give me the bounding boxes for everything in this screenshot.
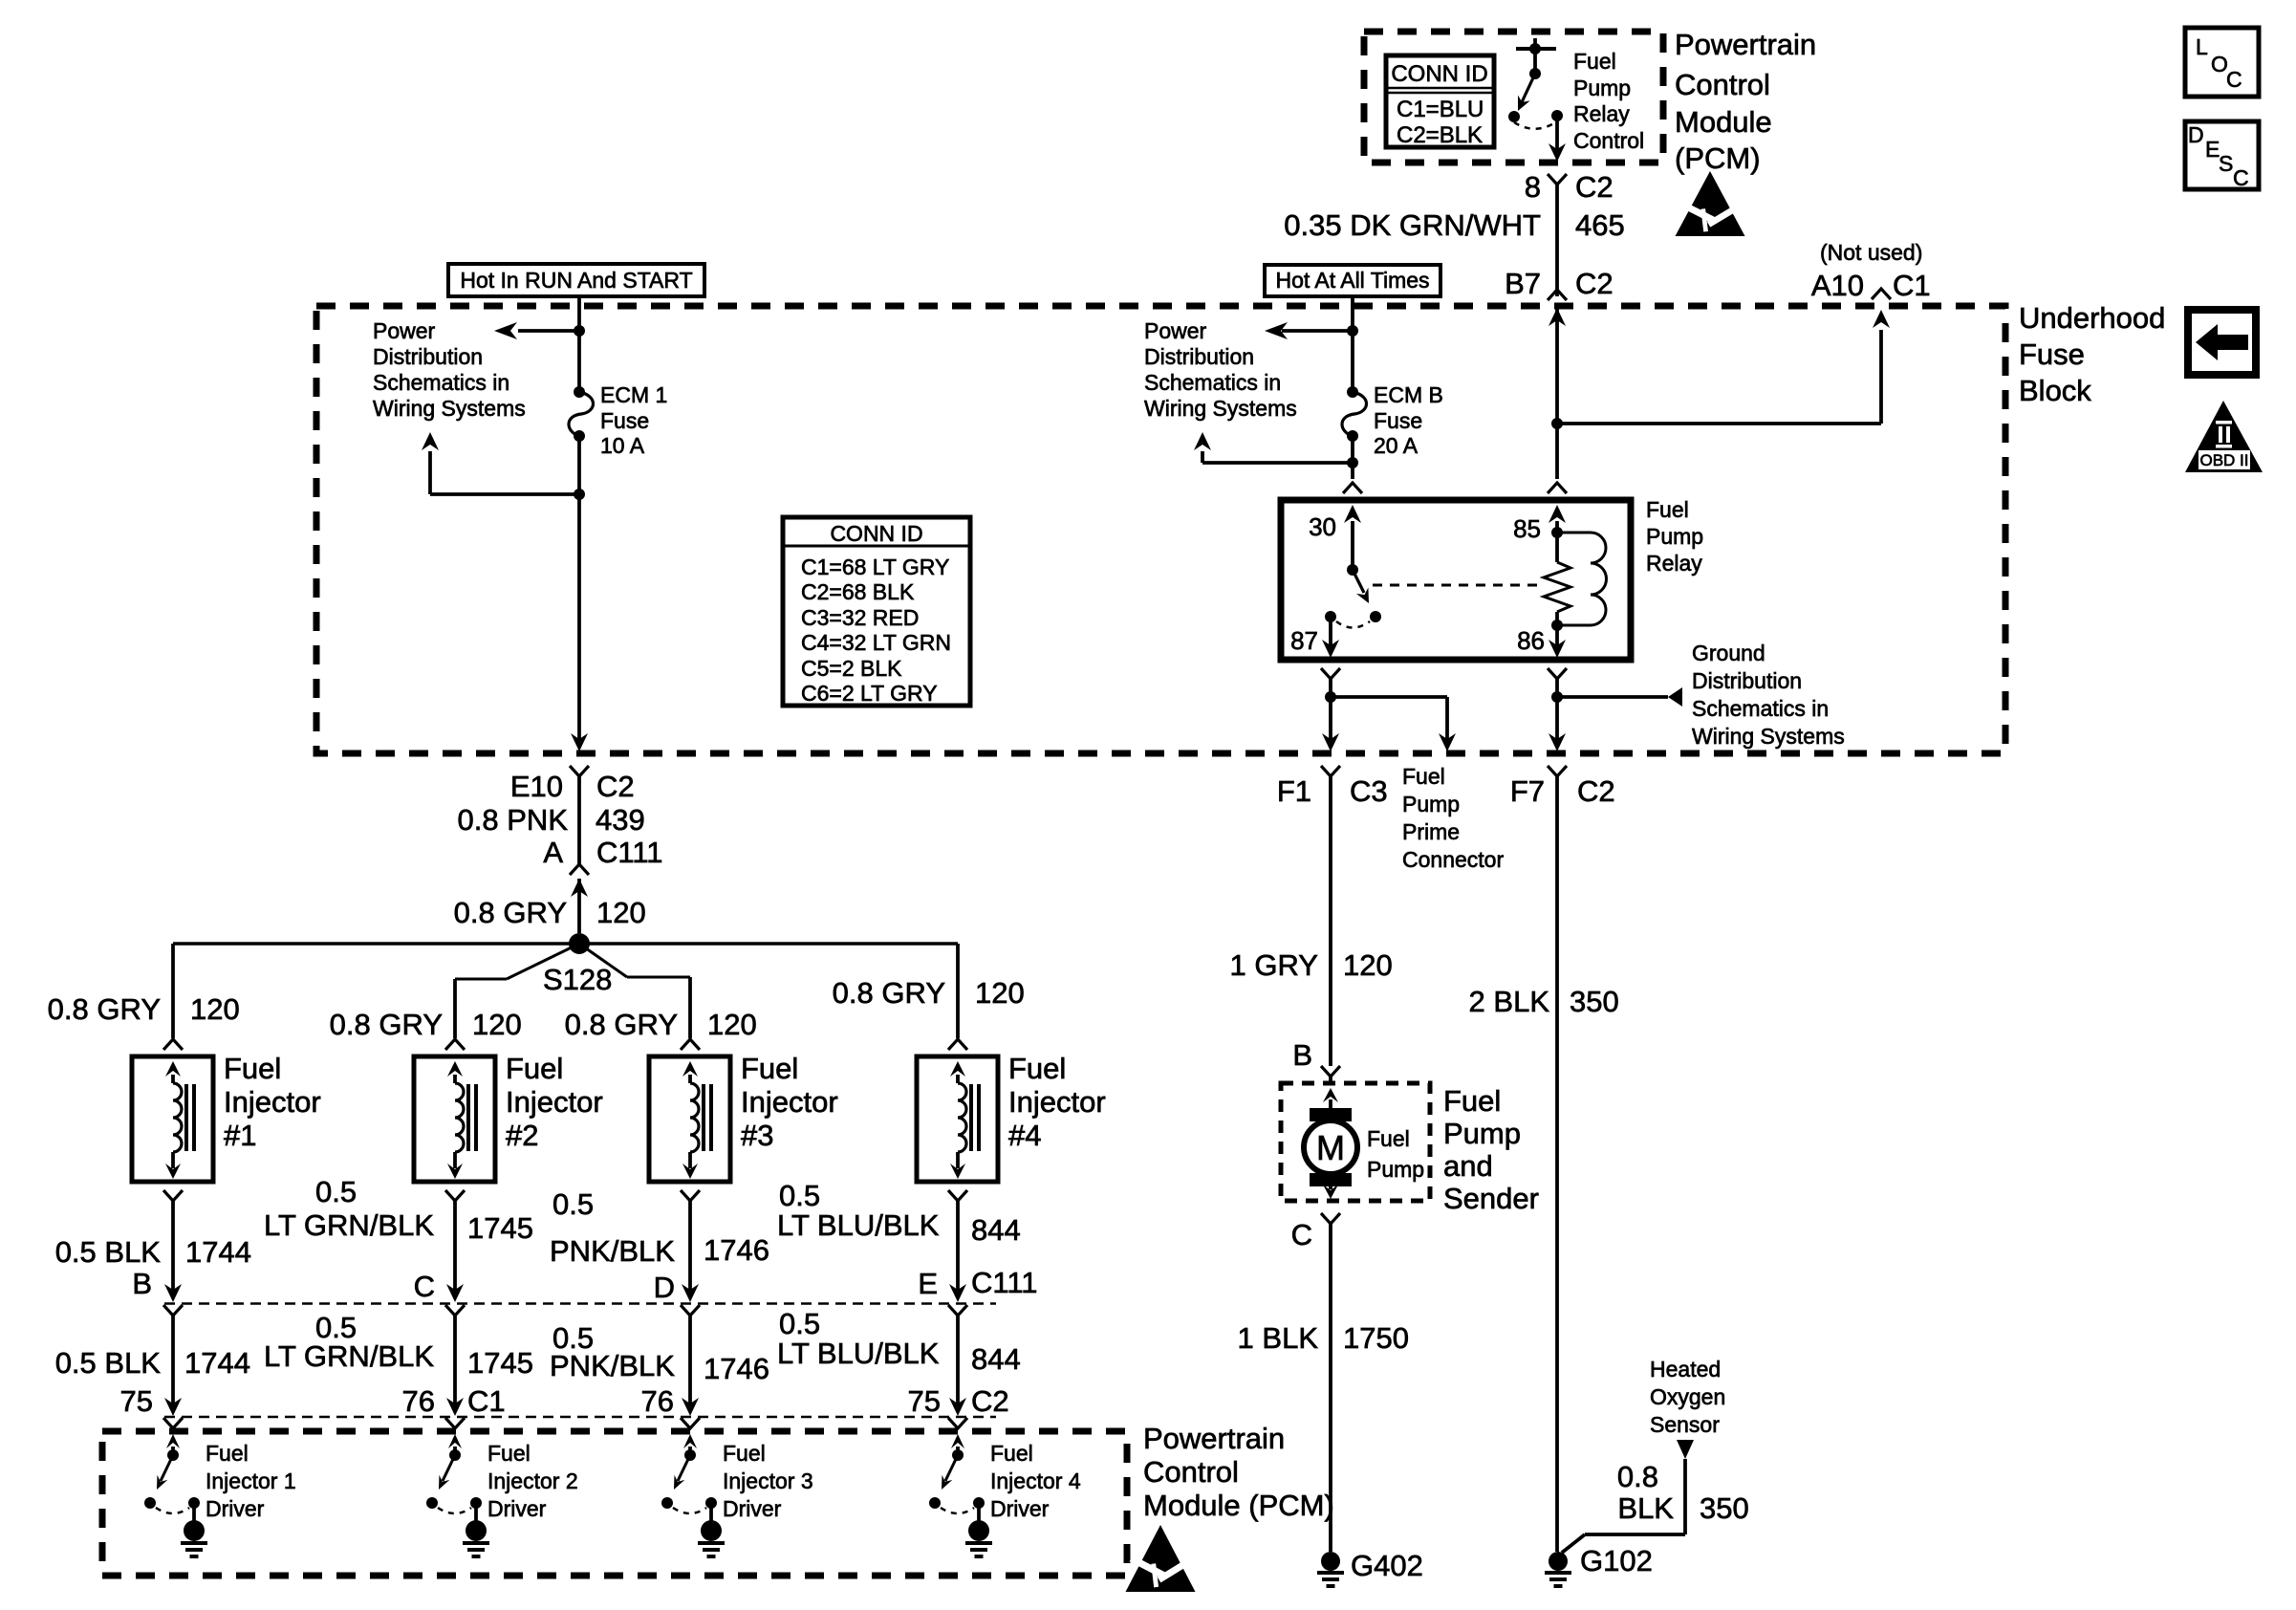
svg-text:0.8: 0.8: [1617, 1460, 1658, 1493]
wire: F7 to G102: [1548, 766, 1567, 1552]
label: Fuel Injector 4 Driver: [990, 1441, 1081, 1521]
fuel injector #4 component: [917, 1039, 998, 1182]
svg-text:Injector 2: Injector 2: [487, 1469, 578, 1493]
svg-text:Driver: Driver: [487, 1496, 547, 1521]
relay linkage (dashed): [1373, 584, 1541, 587]
svg-text:844: 844: [971, 1342, 1021, 1376]
label: ECM 1 Fuse 10 A: [600, 382, 667, 458]
module: Powertrain Control Module (top) dashed outline: [1364, 32, 1663, 163]
svg-text:Wiring Systems: Wiring Systems: [373, 396, 526, 421]
svg-text:1745: 1745: [467, 1211, 533, 1245]
svg-text:Wiring Systems: Wiring Systems: [1144, 396, 1297, 421]
svg-text:120: 120: [472, 1008, 522, 1041]
svg-text:Schematics in: Schematics in: [1692, 696, 1829, 721]
junction and off-page arrow to power distribution (right): [1265, 322, 1358, 339]
symbol: DESC reference box: [2185, 121, 2259, 190]
svg-text:D: D: [2188, 122, 2204, 147]
wire label: 0.8 GRY 120 (injector 2): [330, 1008, 522, 1041]
svg-text:S128: S128: [543, 963, 612, 996]
wire label: 0.5 PNK/BLK 1746 (row2): [550, 1321, 769, 1385]
label: Fuel Pump Relay: [1646, 497, 1703, 576]
driver switch: fuel injector 2 driver: [426, 1418, 482, 1522]
relay switch: movable arm 30-87: [1336, 564, 1381, 628]
wire label: 0.5 LT BLU/BLK 844 (row1): [777, 1179, 1021, 1247]
label: ECM B Fuse 20 A: [1374, 382, 1443, 458]
svg-text:1746: 1746: [704, 1233, 769, 1267]
wire label: 0.5 LT GRN/BLK 1745 (row1): [264, 1175, 533, 1245]
svg-text:75: 75: [120, 1384, 153, 1418]
svg-text:120: 120: [190, 992, 240, 1026]
svg-text:Module: Module: [1675, 105, 1772, 139]
connector C111 lower half pin (injector 3): [681, 1305, 700, 1316]
wire label: 0.5 PNK/BLK 1746 (row1): [550, 1187, 769, 1268]
svg-text:0.8 GRY: 0.8 GRY: [454, 896, 567, 929]
label: Fuel Pump and Sender: [1443, 1084, 1539, 1215]
svg-text:Fuse: Fuse: [1374, 408, 1422, 433]
svg-text:C6=2 LT GRY: C6=2 LT GRY: [801, 681, 938, 706]
svg-text:465: 465: [1575, 208, 1625, 242]
svg-text:D: D: [654, 1271, 675, 1304]
wire: injector 4 low side to C111: [948, 1190, 967, 1302]
svg-text:C5=2 BLK: C5=2 BLK: [801, 656, 902, 681]
wire label: 0.35 DK GRN/WHT 465: [1284, 208, 1624, 242]
svg-text:PNK/BLK: PNK/BLK: [550, 1234, 675, 1268]
wire label: 0.5 BLK 1744 (row2): [55, 1346, 250, 1380]
svg-text:(Not used): (Not used): [1820, 240, 1922, 265]
svg-text:C111: C111: [971, 1266, 1038, 1299]
svg-text:0.5: 0.5: [315, 1175, 357, 1208]
wire: A10 branch (not used): [1551, 310, 1890, 429]
svg-text:350: 350: [1700, 1491, 1749, 1525]
label: Fuel Injector 3 Driver: [723, 1441, 813, 1521]
pin A10 C1 (not used): [1811, 269, 1931, 302]
fuse: ECM B Fuse 20 A: [1342, 386, 1367, 442]
svg-text:120: 120: [1343, 948, 1393, 982]
header: Hot In RUN And START: [448, 264, 704, 296]
svg-text:C4=32 LT GRN: C4=32 LT GRN: [801, 630, 951, 655]
label: Power Distribution Schematics in Wiring Systems (right): [1144, 318, 1297, 421]
svg-text:BLK: BLK: [1617, 1491, 1674, 1525]
svg-text:85: 85: [1513, 514, 1541, 543]
svg-text:ECM 1: ECM 1: [600, 382, 667, 407]
label: Fuel Injector #1: [224, 1052, 321, 1152]
svg-text:1745: 1745: [467, 1346, 533, 1380]
svg-text:Fuel: Fuel: [1008, 1052, 1066, 1085]
svg-text:C1: C1: [1893, 269, 1931, 302]
ground: injector 4 driver internal ground: [965, 1520, 992, 1556]
wire label: 0.8 GRY 120 (injector 1): [48, 992, 240, 1026]
svg-text:B: B: [1292, 1038, 1312, 1072]
splice S128: [173, 933, 958, 996]
wire: injector 2 low side to C111: [445, 1190, 465, 1302]
svg-text:0.5 BLK: 0.5 BLK: [55, 1346, 162, 1380]
svg-text:C1=BLU: C1=BLU: [1397, 97, 1484, 122]
svg-text:1744: 1744: [185, 1235, 251, 1269]
svg-text:Pump: Pump: [1646, 524, 1703, 549]
ground: injector 3 driver internal ground: [698, 1520, 725, 1556]
pin F7 C2 connector below fuse block: [1510, 774, 1615, 808]
svg-text:120: 120: [707, 1008, 757, 1041]
svg-text:Fuel: Fuel: [723, 1441, 766, 1466]
wire label: 2 BLK 350: [1469, 985, 1619, 1018]
svg-text:C2=BLK: C2=BLK: [1397, 122, 1483, 148]
svg-text:Control: Control: [1573, 128, 1644, 153]
svg-text:30: 30: [1309, 512, 1336, 541]
switch: fuel pump relay control driver inside PCM: [1508, 38, 1563, 129]
junction and off-page arrow to power distribution (left): [494, 322, 585, 339]
driver switch: fuel injector 4 driver: [929, 1418, 985, 1522]
svg-text:and: and: [1443, 1149, 1493, 1183]
relay pin 86 output: [1517, 625, 1566, 658]
label: Heated Oxygen Sensor: [1650, 1357, 1725, 1437]
svg-text:Fuse: Fuse: [600, 408, 649, 433]
svg-text:Injector: Injector: [224, 1085, 321, 1119]
svg-text:Power: Power: [1144, 318, 1207, 343]
svg-text:C2: C2: [971, 1384, 1009, 1418]
svg-text:#4: #4: [1008, 1119, 1041, 1152]
svg-text:Underhood: Underhood: [2019, 301, 2165, 335]
label: Fuel Injector 2 Driver: [487, 1441, 578, 1521]
fuel injector #2 component: [414, 1039, 495, 1182]
wire: battery feed into fuse block (left): [577, 296, 581, 392]
svg-text:LT BLU/BLK: LT BLU/BLK: [777, 1208, 940, 1242]
svg-text:M: M: [1316, 1128, 1345, 1167]
svg-text:Prime: Prime: [1402, 819, 1460, 844]
svg-text:0.8 GRY: 0.8 GRY: [330, 1008, 443, 1041]
svg-text:Power: Power: [373, 318, 436, 343]
svg-text:Fuse: Fuse: [2019, 337, 2085, 371]
connector C111 lower half pin (injector 1): [163, 1305, 183, 1316]
module: Powertrain Control Module (bottom) dashed outline: [102, 1431, 1127, 1576]
wire: ECM B fuse output to relay pin 30: [1343, 436, 1362, 493]
label: Fuel Pump (motor): [1367, 1126, 1424, 1182]
svg-text:L: L: [2196, 34, 2208, 59]
svg-text:Driver: Driver: [723, 1496, 782, 1521]
PCM connector line: [164, 1416, 996, 1419]
svg-text:A10: A10: [1811, 269, 1864, 302]
label: Fuel Injector #2: [506, 1052, 603, 1152]
pin B7 C2 connector into underhood fuse block: [1505, 267, 1614, 326]
svg-text:0.8 GRY: 0.8 GRY: [48, 992, 161, 1026]
svg-text:2 BLK: 2 BLK: [1469, 985, 1550, 1018]
svg-text:ECM B: ECM B: [1374, 382, 1443, 407]
wire label: 1 GRY 120: [1230, 948, 1393, 982]
svg-text:Fuel: Fuel: [1573, 49, 1616, 74]
relay coil winding: [1557, 533, 1607, 625]
pin F1 C3 connector below fuse block: [1277, 766, 1388, 808]
ground: injector 1 driver internal ground: [181, 1520, 207, 1556]
relay pin 85 input arrow: [1513, 505, 1566, 543]
svg-text:Distribution: Distribution: [1144, 344, 1254, 369]
wire label: 0.5 LT BLU/BLK 844 (row2): [777, 1307, 1021, 1376]
svg-text:Injector: Injector: [506, 1085, 603, 1119]
fuel injector #3 component: [649, 1039, 730, 1182]
svg-text:Fuel: Fuel: [1367, 1126, 1410, 1151]
svg-text:Injector: Injector: [1008, 1085, 1106, 1119]
wire: injector 4 return into PCM: [949, 1316, 966, 1416]
wire: relay 87 to F1 with prime connector branch: [1321, 668, 1456, 751]
svg-text:0.5: 0.5: [779, 1179, 820, 1212]
svg-text:C: C: [2226, 67, 2242, 92]
svg-text:Powertrain: Powertrain: [1675, 28, 1816, 61]
svg-text:#3: #3: [741, 1119, 773, 1152]
svg-text:PNK/BLK: PNK/BLK: [550, 1349, 675, 1382]
svg-text:C2: C2: [1577, 774, 1615, 808]
connector C111 lower half pin (injector 4): [948, 1305, 967, 1316]
svg-text:A: A: [543, 836, 563, 869]
svg-text:439: 439: [596, 803, 645, 837]
svg-text:Sensor: Sensor: [1650, 1412, 1720, 1437]
wire: heated oxygen sensor ground branch: [1562, 1440, 1694, 1553]
svg-text:Fuel: Fuel: [1402, 764, 1445, 789]
label: Fuel Pump Prime Connector: [1402, 764, 1504, 872]
wire label: 1 BLK 1750: [1238, 1321, 1409, 1355]
wire: B7 feed down to relay pin 85: [1548, 308, 1567, 493]
svg-text:1 GRY: 1 GRY: [1230, 948, 1318, 982]
wire: S128 to injector 1: [171, 944, 175, 1038]
svg-text:F7: F7: [1510, 774, 1545, 808]
fuel injector #1 component: [132, 1039, 213, 1182]
wire: fuel pump relay control output to pin 8: [1549, 116, 1566, 162]
svg-text:C3: C3: [1350, 774, 1388, 808]
svg-text:120: 120: [975, 976, 1025, 1010]
svg-text:Connector: Connector: [1402, 847, 1504, 872]
driver switch: fuel injector 3 driver: [661, 1418, 717, 1522]
wire label: 0.8 GRY 120 (feed): [454, 896, 646, 929]
wire label: 0.8 PNK 439: [458, 803, 645, 837]
svg-text:0.8 GRY: 0.8 GRY: [833, 976, 945, 1010]
svg-text:0.8 PNK: 0.8 PNK: [458, 803, 569, 837]
svg-text:0.5 BLK: 0.5 BLK: [55, 1235, 162, 1269]
svg-text:8: 8: [1525, 170, 1541, 204]
label: Ground Distribution Schematics in Wiring Systems: [1692, 641, 1845, 749]
svg-text:B: B: [132, 1267, 152, 1300]
svg-text:86: 86: [1517, 626, 1545, 655]
fuse: ECM 1 Fuse 10 A: [569, 386, 594, 442]
relay pin 87 output: [1290, 611, 1339, 658]
wire: ECM1 fuse output: [571, 436, 588, 751]
relay: Fuel Pump Relay outline: [1281, 500, 1631, 660]
pin B fuel pump connector: [1292, 1038, 1340, 1083]
svg-text:E: E: [918, 1267, 938, 1300]
svg-text:C: C: [1291, 1218, 1312, 1251]
wire label: 0.8 GRY 120 (injector 3): [565, 1008, 757, 1041]
svg-text:Module (PCM): Module (PCM): [1143, 1489, 1334, 1522]
connector C111 lower half pin (injector 2): [445, 1305, 465, 1316]
junction and stub arrow (left fuse output): [422, 432, 585, 500]
svg-text:76: 76: [641, 1384, 674, 1418]
svg-text:S: S: [2219, 151, 2233, 176]
connector C111 pin A: [543, 836, 662, 933]
wire: relay 86 to F7 with ground distribution stub: [1548, 668, 1682, 751]
svg-text:Pump: Pump: [1402, 792, 1460, 816]
label: Fuel Injector 1 Driver: [206, 1441, 296, 1521]
svg-text:Distribution: Distribution: [1692, 668, 1802, 693]
svg-text:Distribution: Distribution: [373, 344, 483, 369]
svg-text:LT GRN/BLK: LT GRN/BLK: [264, 1208, 434, 1242]
label: Powertrain Control Module (PCM) bottom: [1143, 1422, 1334, 1522]
svg-text:Injector 1: Injector 1: [206, 1469, 296, 1493]
svg-text:#2: #2: [506, 1119, 538, 1152]
svg-text:Heated: Heated: [1650, 1357, 1721, 1382]
svg-text:10 A: 10 A: [600, 433, 645, 458]
svg-text:Injector: Injector: [741, 1085, 838, 1119]
svg-text:Fuel: Fuel: [506, 1052, 563, 1085]
wire label: 0.8 BLK 350: [1617, 1460, 1749, 1525]
svg-text:Driver: Driver: [990, 1496, 1050, 1521]
svg-text:350: 350: [1570, 985, 1619, 1018]
fuel pump and sender dashed outline: [1281, 1083, 1430, 1201]
svg-text:Fuel: Fuel: [224, 1052, 281, 1085]
svg-text:C1=68 LT GRY: C1=68 LT GRY: [801, 555, 949, 579]
wire: battery feed into fuse block (right): [1351, 296, 1354, 392]
ground: injector 2 driver internal ground: [463, 1520, 489, 1556]
wire: injector 2 return into PCM: [446, 1316, 464, 1416]
label: (Not used): [1820, 240, 1922, 265]
svg-text:Fuel: Fuel: [1443, 1084, 1501, 1118]
svg-text:C2: C2: [1575, 267, 1614, 300]
svg-text:1 BLK: 1 BLK: [1238, 1321, 1319, 1355]
symbol: ESD sensitive device triangle (bottom): [1126, 1525, 1200, 1592]
wire label: 0.5 LT GRN/BLK 1745 (row2): [264, 1311, 533, 1380]
svg-text:0.35 DK GRN/WHT: 0.35 DK GRN/WHT: [1284, 208, 1541, 242]
connector ID table (PCM): CONN ID C1=BLU C2=BLK: [1386, 55, 1494, 148]
svg-text:1750: 1750: [1343, 1321, 1409, 1355]
svg-text:C: C: [414, 1270, 435, 1303]
wire: injector 1 low side to C111: [163, 1190, 183, 1302]
svg-text:1744: 1744: [184, 1346, 250, 1380]
svg-text:Oxygen: Oxygen: [1650, 1384, 1725, 1409]
connector C111 line: [164, 1302, 996, 1305]
svg-text:Injector 4: Injector 4: [990, 1469, 1081, 1493]
svg-text:0.5: 0.5: [779, 1307, 820, 1340]
svg-text:E10: E10: [510, 770, 563, 803]
svg-text:C2: C2: [1575, 170, 1614, 204]
wire: injector 3 low side to C111: [681, 1190, 700, 1302]
connector ID table (fuse block): C111 connector colours: [783, 517, 970, 706]
connector C111 pin letters: [132, 1266, 1037, 1304]
svg-text:Schematics in: Schematics in: [373, 370, 509, 395]
svg-text:Block: Block: [2019, 374, 2091, 407]
svg-text:0.8 GRY: 0.8 GRY: [565, 1008, 678, 1041]
svg-text:20 A: 20 A: [1374, 433, 1419, 458]
svg-text:C3=32 RED: C3=32 RED: [801, 605, 919, 630]
svg-text:Sender: Sender: [1443, 1182, 1539, 1215]
label: Fuel Injector #3: [741, 1052, 838, 1152]
svg-text:844: 844: [971, 1213, 1021, 1247]
svg-text:1746: 1746: [704, 1352, 769, 1385]
wire label: 0.8 GRY 120 (injector 4): [833, 976, 1025, 1010]
wire: S128 to injector 4: [956, 944, 960, 1038]
svg-text:Schematics in: Schematics in: [1144, 370, 1281, 395]
svg-text:LT GRN/BLK: LT GRN/BLK: [264, 1339, 434, 1373]
relay pin 30 input arrow: [1309, 505, 1361, 570]
symbol: OBD II triangle: [2185, 401, 2263, 472]
svg-text:B7: B7: [1505, 267, 1541, 300]
svg-text:0.5: 0.5: [552, 1187, 594, 1221]
pin 8 C2 connector on relay control wire: [1525, 170, 1614, 296]
svg-text:C1: C1: [467, 1384, 506, 1418]
svg-text:120: 120: [596, 896, 646, 929]
svg-text:Fuel: Fuel: [206, 1441, 249, 1466]
svg-text:F1: F1: [1277, 774, 1311, 808]
label: Fuel Injector #4: [1008, 1052, 1106, 1152]
svg-text:87: 87: [1290, 626, 1318, 655]
svg-text:Ground: Ground: [1692, 641, 1765, 665]
svg-text:G402: G402: [1351, 1549, 1423, 1582]
svg-text:Hot In RUN And START: Hot In RUN And START: [460, 268, 692, 293]
svg-text:Wiring Systems: Wiring Systems: [1692, 724, 1845, 749]
wire: S128 to injector 2: [455, 944, 579, 1038]
svg-text:CONN ID: CONN ID: [830, 521, 922, 546]
wire: F1 to fuel pump: [1329, 776, 1332, 1066]
svg-text:OBD II: OBD II: [2199, 451, 2248, 469]
svg-text:Pump: Pump: [1573, 76, 1631, 100]
svg-text:CONN ID: CONN ID: [1391, 61, 1487, 87]
ground G102: [1545, 1544, 1653, 1586]
svg-text:Pump: Pump: [1443, 1117, 1521, 1150]
svg-text:G102: G102: [1580, 1544, 1653, 1577]
svg-text:Fuel: Fuel: [990, 1441, 1033, 1466]
symbol: ESD sensitive device triangle (top): [1676, 171, 1749, 236]
stub arrow (ECM B fuse output): [1194, 432, 1353, 463]
driver switch: fuel injector 1 driver: [144, 1418, 200, 1522]
svg-text:Control: Control: [1143, 1455, 1239, 1489]
relay coil resistor element: [1544, 527, 1570, 631]
label: Underhood Fuse Block: [2019, 301, 2165, 407]
pin E10 C2 connector below fuse block: [510, 766, 635, 864]
header: Hot At All Times: [1265, 265, 1440, 296]
svg-text:C2=68 BLK: C2=68 BLK: [801, 579, 915, 604]
ground G402: [1317, 1549, 1423, 1586]
svg-text:Pump: Pump: [1367, 1157, 1424, 1182]
label: Power Distribution Schematics in Wiring Systems (left): [373, 318, 526, 421]
svg-text:76: 76: [402, 1384, 435, 1418]
wire: injector 3 return into PCM: [682, 1316, 699, 1416]
pin C fuel pump connector: [1291, 1213, 1340, 1552]
symbol: left arrow reference box: [2188, 310, 2256, 375]
svg-text:(PCM): (PCM): [1675, 141, 1761, 175]
PCM connector pin numbers 75/76: [120, 1384, 1009, 1418]
label: Powertrain Control Module (PCM) top: [1675, 28, 1816, 175]
wire label: 0.5 BLK 1744 (row1): [55, 1235, 251, 1269]
symbol: LOC reference box: [2185, 28, 2259, 97]
svg-text:Fuel: Fuel: [1646, 497, 1689, 522]
svg-text:Relay: Relay: [1646, 551, 1702, 576]
motor: fuel pump: [1304, 1088, 1357, 1199]
svg-text:#1: #1: [224, 1119, 256, 1152]
svg-text:C: C: [2233, 165, 2249, 190]
wire: injector 1 return into PCM: [164, 1316, 182, 1416]
svg-text:Relay: Relay: [1573, 101, 1630, 126]
svg-text:Control: Control: [1675, 68, 1770, 101]
svg-text:C111: C111: [596, 836, 663, 869]
svg-text:Injector 3: Injector 3: [723, 1469, 813, 1493]
svg-text:Fuel: Fuel: [487, 1441, 531, 1466]
underhood fuse block dashed outline: [316, 306, 2005, 753]
svg-text:LT BLU/BLK: LT BLU/BLK: [777, 1337, 940, 1370]
svg-text:C2: C2: [596, 770, 635, 803]
label: Fuel Pump Relay Control: [1573, 49, 1644, 153]
svg-text:Fuel: Fuel: [741, 1052, 798, 1085]
wire: S128 to injector 3: [579, 944, 690, 1038]
svg-text:Hot At All Times: Hot At All Times: [1275, 268, 1429, 293]
svg-text:Driver: Driver: [206, 1496, 265, 1521]
svg-text:Powertrain: Powertrain: [1143, 1422, 1285, 1455]
svg-text:75: 75: [908, 1384, 941, 1418]
